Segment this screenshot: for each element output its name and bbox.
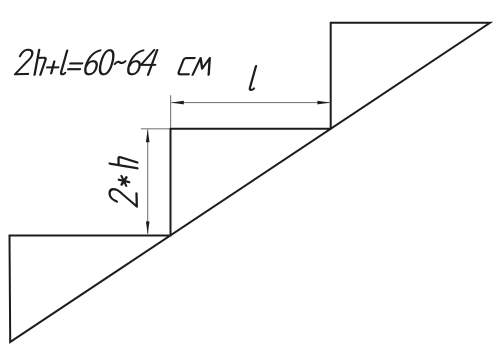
formula text 2h+l=60~64 cm [15, 50, 215, 75]
arrow left of l dimension [171, 101, 184, 105]
label l [249, 66, 259, 90]
arrow right of l dimension [317, 101, 330, 105]
extension line left of l dimension [170, 95, 172, 127]
extension line for 2*h dimension [141, 128, 170, 130]
arrow bottom of 2*h dimension [146, 221, 150, 234]
arrow top of 2*h dimension [146, 129, 150, 142]
dimension line l [171, 102, 330, 104]
label 2*h rotated [110, 155, 138, 207]
dimension line 2*h [147, 130, 149, 234]
